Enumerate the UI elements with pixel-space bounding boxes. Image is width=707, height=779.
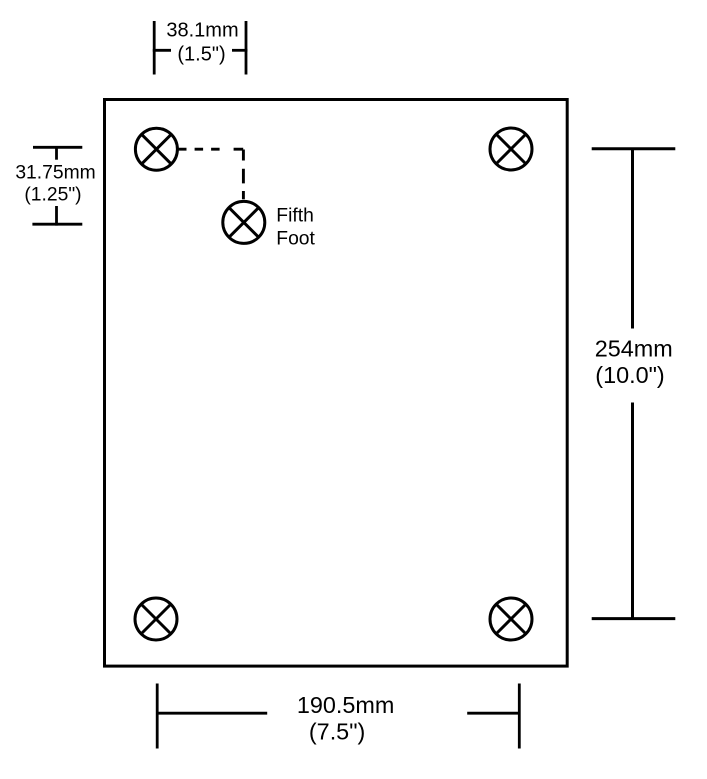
svg-text:Fifth: Fifth bbox=[276, 206, 314, 227]
dashed leader horizontal from top-left foot bbox=[178, 148, 244, 151]
label 254mm bbox=[595, 335, 673, 361]
label Fifth bbox=[276, 206, 314, 227]
dashed leader vertical to fifth foot bbox=[242, 150, 245, 201]
dimension 254mm top bar bbox=[592, 147, 676, 150]
svg-text:(1.5"): (1.5") bbox=[177, 43, 225, 65]
label (1.25") bbox=[24, 185, 81, 206]
dimension 254mm vertical line lower bbox=[631, 403, 634, 619]
svg-text:(10.0"): (10.0") bbox=[595, 362, 664, 388]
dimension 31.75mm top stub bbox=[55, 146, 58, 160]
foot bottom-left (circle with X) bbox=[135, 598, 177, 640]
dimension 38.1mm line left segment bbox=[153, 49, 171, 52]
label 190.5mm bbox=[297, 692, 395, 718]
label (7.5") bbox=[309, 719, 365, 745]
svg-text:(7.5"): (7.5") bbox=[309, 719, 365, 745]
svg-text:190.5mm: 190.5mm bbox=[297, 692, 395, 718]
label 38.1mm bbox=[166, 20, 238, 42]
dimension 190.5mm line left segment bbox=[157, 712, 267, 715]
dimension 38.1mm line right segment bbox=[232, 49, 247, 52]
dimension 254mm bottom bar bbox=[592, 617, 676, 620]
svg-text:254mm: 254mm bbox=[595, 335, 673, 361]
dimension 38.1mm right extension tick bbox=[245, 21, 248, 75]
label (1.5") bbox=[177, 43, 225, 65]
foot top-left (circle with X) bbox=[135, 128, 177, 170]
svg-text:(1.25"): (1.25") bbox=[24, 185, 81, 206]
label 31.75mm bbox=[15, 163, 95, 184]
dimension 31.75mm bottom stub bbox=[55, 206, 58, 226]
label Foot bbox=[276, 228, 315, 249]
dimension 254mm vertical line upper bbox=[631, 149, 634, 329]
dimension 38.1mm left extension tick bbox=[153, 21, 156, 75]
label (10.0") bbox=[595, 362, 664, 388]
dimension 190.5mm left extension tick bbox=[156, 684, 159, 749]
foot bottom-right (circle with X) bbox=[490, 598, 532, 640]
dimension 31.75mm bottom bar bbox=[32, 223, 82, 226]
dimension 31.75mm top bar bbox=[33, 146, 82, 149]
fifth foot (circle with X) bbox=[223, 201, 265, 243]
svg-text:38.1mm: 38.1mm bbox=[166, 20, 238, 42]
svg-text:Foot: Foot bbox=[276, 228, 315, 249]
svg-text:31.75mm: 31.75mm bbox=[15, 163, 95, 184]
dimension 190.5mm line right segment bbox=[467, 712, 520, 715]
dimension 190.5mm right extension tick bbox=[518, 684, 521, 749]
foot top-right (circle with X) bbox=[490, 128, 532, 170]
plate outline rectangle bbox=[105, 100, 568, 667]
